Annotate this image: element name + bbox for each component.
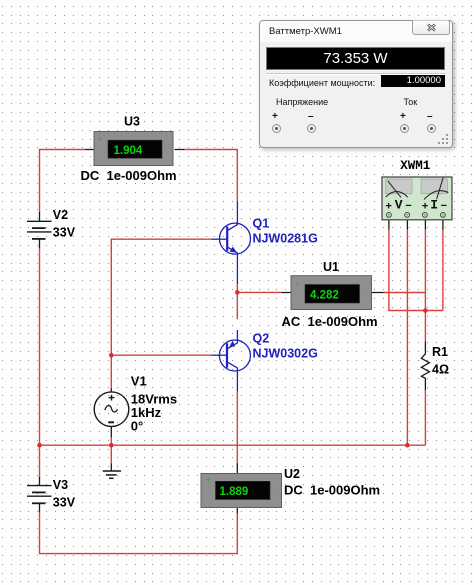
pin I- — [441, 213, 446, 218]
wire top rail left: U3 left pin to V2 top — [40, 150, 86, 212]
wire ground rail to ground symbol — [110, 445, 112, 463]
wire Q2 collector down to U2 top — [236, 392, 238, 464]
junction left rail at ground rail — [37, 443, 42, 448]
svg-text:NJW0302G: NJW0302G — [253, 347, 318, 361]
svg-text:Q1: Q1 — [253, 217, 270, 231]
junction output node at U1 tap — [235, 290, 240, 295]
resistor R1 — [421, 342, 429, 391]
svg-text:+: + — [98, 137, 102, 144]
ammeter U2 — [201, 463, 282, 513]
resize grip — [438, 133, 450, 145]
battery V3 — [27, 477, 52, 513]
junction V1/ground at ground rail — [109, 443, 114, 448]
dialog close button — [412, 20, 450, 35]
pin V- — [405, 213, 410, 218]
svg-text:NJW0281G: NJW0281G — [253, 231, 318, 245]
svg-text:DC 1e-009Ohm: DC 1e-009Ohm — [81, 168, 177, 183]
separator — [266, 73, 445, 75]
wire output node to U1 left pin — [237, 291, 281, 293]
dialog title — [269, 26, 342, 37]
svg-text:V2: V2 — [53, 208, 68, 222]
svg-text:+: + — [207, 477, 211, 484]
transistor Q1 — [212, 201, 251, 284]
svg-text:−: − — [405, 201, 412, 213]
ammeter U3 — [85, 132, 184, 166]
svg-text:−: − — [441, 201, 448, 213]
wire V2 bottom down to V3 top (through ground rail) — [39, 248, 41, 476]
ammeter U1 — [281, 276, 383, 310]
polarity + (current) — [400, 111, 406, 122]
svg-text:U1: U1 — [323, 260, 339, 274]
svg-text:U2: U2 — [284, 467, 300, 481]
wattmeter XWM1 component — [382, 177, 452, 230]
wire XWM1 I+ terminal down to R1 top junction — [424, 230, 426, 311]
transistor Q2 — [212, 330, 251, 392]
svg-text:4Ω: 4Ω — [432, 363, 449, 377]
svg-text:Q2: Q2 — [253, 331, 270, 345]
svg-text:33V: 33V — [53, 496, 76, 510]
socket V+ — [272, 124, 281, 133]
junction V- at ground rail — [405, 443, 410, 448]
wire V3 bottom to bottom rail to U2 bottom — [40, 512, 238, 553]
wire Q1 emitter to Q2 emitter (output node) — [236, 284, 238, 319]
svg-text:XWM1: XWM1 — [400, 159, 430, 173]
wire XWM1 V- terminal down to ground rail — [406, 230, 408, 446]
svg-text:I: I — [430, 198, 438, 213]
wire V1 top to Q1 base — [111, 239, 211, 388]
socket V- — [307, 124, 316, 133]
polarity + (voltage) — [272, 111, 278, 122]
svg-text:+: + — [296, 281, 300, 288]
wire top rail right: U3 right pin to Q1 collector — [184, 150, 237, 202]
power factor display 1.00000 — [381, 75, 445, 87]
polarity - (current) — [427, 111, 433, 122]
power display 73.353 W — [266, 47, 445, 70]
wire XWM1 I- terminal down to R1 top junction — [442, 230, 444, 311]
wire U1 right pin to XWM1 I+ column — [384, 292, 426, 294]
svg-text:+: + — [385, 201, 392, 213]
battery V2 — [27, 212, 52, 249]
svg-text:33V: 33V — [53, 226, 76, 240]
label power factor — [269, 78, 375, 88]
label voltage — [276, 97, 328, 107]
wire base node to Q2 base — [111, 354, 211, 356]
wire XWM1 V+ terminal down and right to R1 top junction — [389, 230, 443, 311]
svg-text:0°: 0° — [131, 419, 143, 434]
wire V1 bottom to ground rail — [110, 437, 112, 445]
ac source V1 — [94, 389, 129, 438]
wire ground rail — [40, 444, 426, 446]
junction base node at Q2 base tap — [109, 353, 114, 358]
svg-text:1.904: 1.904 — [114, 145, 143, 157]
junction R1 top node — [423, 308, 428, 313]
svg-text:AC 1e-009Ohm: AC 1e-009Ohm — [282, 314, 378, 329]
pin I+ — [423, 213, 428, 218]
polarity - (voltage) — [308, 111, 314, 122]
svg-text:V1: V1 — [131, 374, 147, 389]
svg-text:V: V — [395, 198, 403, 213]
pin V+ — [387, 213, 392, 218]
socket I+ — [400, 124, 409, 133]
label current — [404, 97, 418, 107]
wattmeter panel XWM1 dialog — [259, 20, 453, 148]
svg-text:4.282: 4.282 — [310, 289, 339, 301]
svg-text:+: + — [422, 201, 429, 213]
wire R1 top lead — [424, 311, 426, 342]
svg-text:DC 1e-009Ohm: DC 1e-009Ohm — [284, 483, 380, 498]
wire R1 bottom to ground rail — [424, 390, 426, 445]
ground — [103, 463, 121, 478]
svg-text:R1: R1 — [432, 345, 448, 359]
svg-text:U3: U3 — [124, 115, 140, 129]
socket I- — [427, 124, 436, 133]
svg-text:1.889: 1.889 — [220, 486, 249, 498]
svg-text:V3: V3 — [53, 478, 68, 492]
